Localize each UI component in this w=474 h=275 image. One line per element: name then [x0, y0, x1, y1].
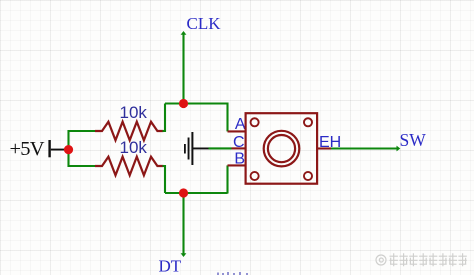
svg-text:C: C	[233, 134, 245, 151]
switch S1 mounting hole top-left	[251, 118, 259, 126]
wire CLK horizontal	[165, 102, 228, 104]
wire DT horizontal	[165, 192, 228, 194]
svg-text:DT: DT	[159, 257, 182, 275]
wire +5V node to R1 (top branch)	[69, 131, 97, 151]
junction dot +5V node	[64, 145, 73, 154]
power port +5V	[10, 138, 65, 160]
wire DT vertical	[182, 193, 184, 256]
wire +5V node to R2 (bottom branch)	[69, 148, 97, 166]
wire down to pin A	[226, 103, 228, 132]
wire ground to pin C	[209, 147, 232, 149]
svg-text:B: B	[234, 151, 245, 168]
wire R1 to CLK bus	[163, 104, 166, 132]
svg-text:SW: SW	[400, 130, 427, 150]
svg-text:A: A	[235, 116, 246, 133]
svg-text:10k: 10k	[120, 138, 148, 157]
junction dot CLK node	[179, 99, 188, 108]
switch S1 pin A	[228, 130, 247, 132]
wire SW	[331, 147, 399, 149]
svg-text:10k: 10k	[120, 103, 148, 122]
wire up to pin B	[226, 165, 228, 193]
resistor R1	[95, 122, 163, 141]
switch S1 pin E/H	[318, 147, 332, 149]
switch S1 pin C	[232, 147, 247, 149]
wire CLK vertical	[182, 33, 184, 104]
switch S1 button outer circle	[264, 131, 300, 167]
ground symbol	[184, 132, 209, 165]
switch S1 mounting hole bottom-right	[304, 172, 312, 180]
switch S1 mounting hole bottom-left	[251, 172, 259, 180]
switch S1 button inner circle	[268, 135, 295, 162]
switch S1 mounting hole top-right	[304, 118, 312, 126]
resistor R2	[95, 157, 163, 176]
svg-text:CLK: CLK	[187, 14, 222, 33]
junction dot DT node	[179, 188, 188, 197]
switch S1 pin B	[228, 164, 247, 166]
watermark cut-off text bottom-center	[217, 272, 248, 275]
wire R2 to DT bus	[163, 166, 166, 193]
watermark bottom-right	[376, 253, 467, 266]
switch S1 body outline	[246, 113, 318, 184]
svg-text:+5V: +5V	[10, 138, 45, 160]
